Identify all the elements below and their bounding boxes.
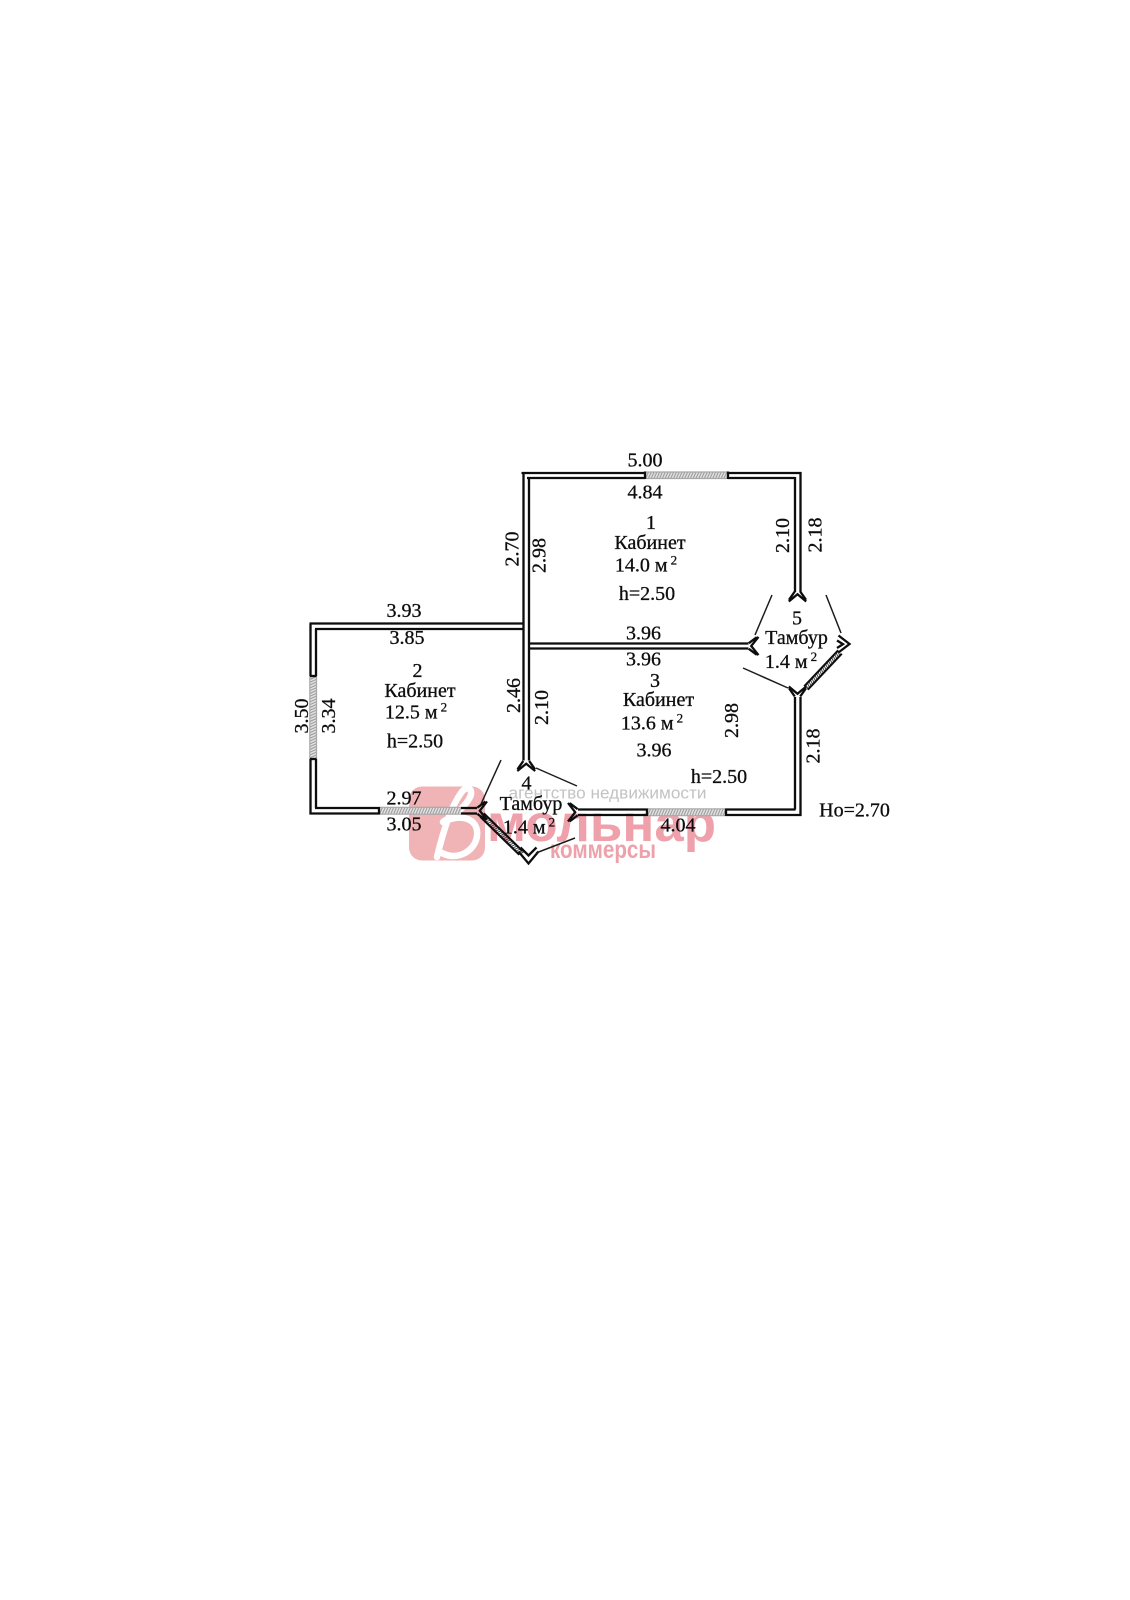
svg-text:коммерсы: коммерсы bbox=[550, 836, 656, 864]
svg-text:Тамбур: Тамбур bbox=[500, 793, 563, 815]
svg-text:3.85: 3.85 bbox=[390, 627, 425, 649]
svg-text:2.98: 2.98 bbox=[529, 538, 551, 573]
svg-text:2.46: 2.46 bbox=[503, 678, 525, 713]
svg-text:3.96: 3.96 bbox=[637, 740, 672, 762]
svg-text:2.18: 2.18 bbox=[805, 518, 827, 553]
svg-text:3.34: 3.34 bbox=[318, 699, 340, 734]
svg-text:4.04: 4.04 bbox=[661, 815, 696, 837]
svg-text:3.05: 3.05 bbox=[387, 814, 422, 836]
svg-text:2.98: 2.98 bbox=[721, 703, 743, 738]
svg-text:Кабинет: Кабинет bbox=[614, 532, 685, 554]
svg-text:3.93: 3.93 bbox=[387, 600, 422, 622]
svg-text:3.96: 3.96 bbox=[626, 623, 661, 645]
svg-text:h=2.50: h=2.50 bbox=[691, 766, 747, 788]
svg-text:2.10: 2.10 bbox=[772, 518, 794, 553]
svg-text:Кабинет: Кабинет bbox=[623, 689, 694, 711]
svg-text:2.10: 2.10 bbox=[531, 690, 553, 725]
svg-text:3.96: 3.96 bbox=[626, 649, 661, 671]
svg-text:2.70: 2.70 bbox=[502, 532, 524, 567]
svg-text:h=2.50: h=2.50 bbox=[619, 583, 675, 605]
svg-text:4.84: 4.84 bbox=[628, 482, 663, 504]
svg-text:2.97: 2.97 bbox=[387, 788, 422, 810]
svg-text:5.00: 5.00 bbox=[628, 450, 663, 472]
svg-text:2: 2 bbox=[413, 660, 423, 682]
svg-text:Ho=2.70: Ho=2.70 bbox=[819, 800, 890, 822]
svg-text:3.50: 3.50 bbox=[291, 699, 313, 734]
svg-text:h=2.50: h=2.50 bbox=[387, 731, 443, 753]
svg-text:2.18: 2.18 bbox=[803, 729, 825, 764]
svg-text:1: 1 bbox=[646, 512, 656, 534]
svg-text:4: 4 bbox=[522, 773, 532, 795]
svg-text:Тамбур: Тамбур bbox=[765, 627, 828, 649]
